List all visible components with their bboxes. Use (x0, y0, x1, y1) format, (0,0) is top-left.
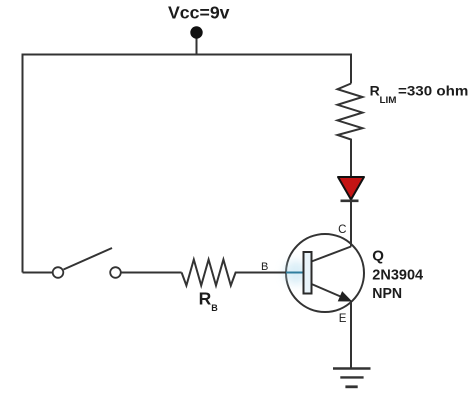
svg-text:R: R (199, 289, 212, 309)
svg-text:=330 ohm: =330 ohm (398, 83, 468, 99)
svg-text:E: E (339, 313, 347, 325)
svg-text:R: R (370, 83, 380, 99)
svg-text:NPN: NPN (372, 285, 402, 302)
svg-text:B: B (261, 261, 268, 273)
svg-text:Q: Q (372, 248, 384, 265)
svg-text:2N3904: 2N3904 (372, 267, 423, 284)
svg-text:C: C (338, 224, 346, 236)
svg-text:Vcc=9v: Vcc=9v (168, 3, 230, 23)
svg-text:B: B (211, 303, 218, 313)
svg-text:LIM: LIM (380, 95, 397, 105)
